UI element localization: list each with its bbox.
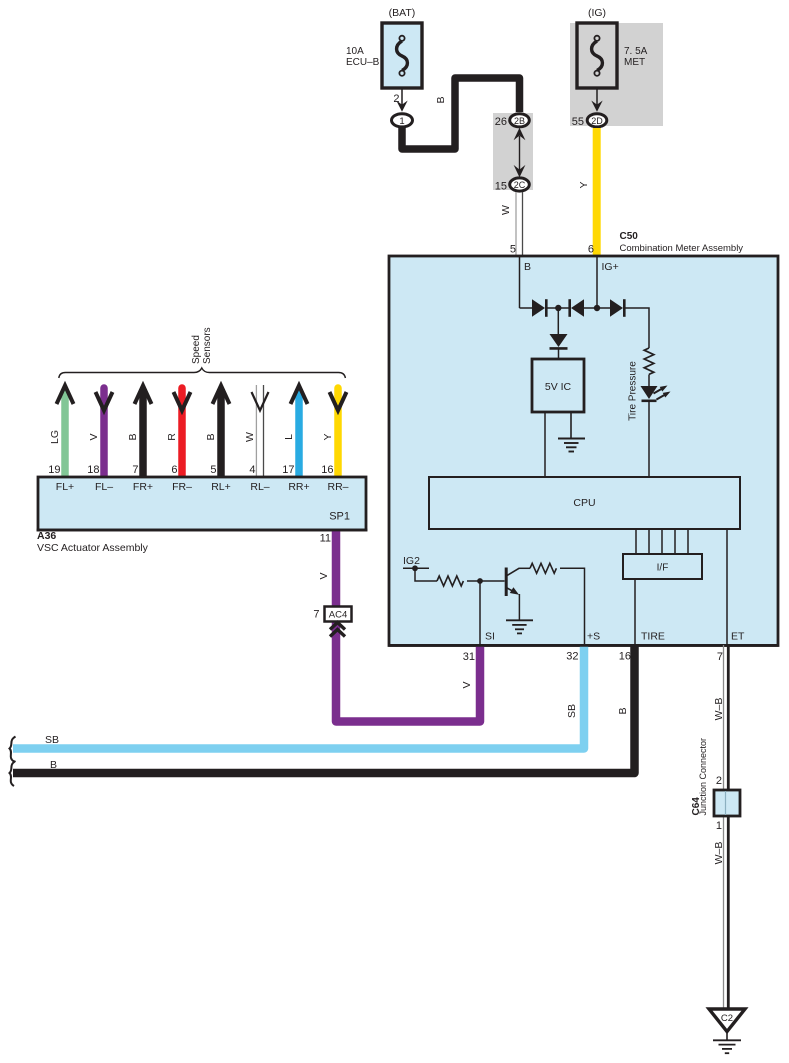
wire 5V IC to CPU (544, 412, 546, 477)
double chevron below AC4 (330, 623, 345, 630)
svg-text:18: 18 (87, 464, 99, 476)
svg-text:31: 31 (463, 651, 475, 663)
resistor R1 tire pressure (644, 348, 654, 374)
svg-text:ECU–B: ECU–B (346, 57, 380, 68)
svg-text:2C: 2C (514, 180, 526, 190)
svg-text:FL–: FL– (95, 481, 113, 493)
pin B line (519, 257, 521, 308)
svg-text:2: 2 (716, 775, 722, 787)
wire J1 down to D4 (557, 308, 559, 334)
pin IG+ line (596, 257, 598, 308)
svg-text:RR+: RR+ (288, 481, 309, 493)
svg-text:+S: +S (587, 631, 600, 643)
arrow down into connector 1 (396, 101, 407, 112)
ground G1 (558, 439, 585, 452)
svg-text:LG: LG (49, 430, 61, 444)
CPU box U2 (429, 477, 740, 529)
fuse F2 symbol (592, 36, 603, 76)
fuse F1 10A ECU-B box (382, 23, 422, 88)
svg-text:L: L (283, 434, 295, 440)
svg-text:SP1: SP1 (329, 511, 350, 523)
svg-text:2: 2 (393, 93, 399, 105)
wire collector (519, 567, 531, 569)
wire B thick black from connector 1 to 2B (402, 78, 520, 149)
svg-text:16: 16 (619, 651, 631, 663)
svg-text:C2: C2 (721, 1013, 733, 1024)
svg-text:Sensors: Sensors (202, 327, 213, 364)
svg-text:Tire Pressure: Tire Pressure (628, 361, 639, 421)
svg-text:Y: Y (322, 433, 334, 440)
svg-text:1: 1 (716, 820, 722, 832)
C50 box (389, 256, 778, 646)
svg-text:V: V (461, 681, 473, 688)
wire Y yellow from 2D to C50 pin 6 (593, 128, 601, 256)
svg-text:10A: 10A (346, 46, 364, 57)
svg-text:B: B (435, 96, 447, 103)
node J1 (555, 305, 561, 311)
svg-text:19: 19 (48, 464, 60, 476)
svg-text:5: 5 (510, 244, 516, 256)
A36 box (38, 477, 366, 530)
brace speed sensors (59, 368, 346, 378)
svg-text:55: 55 (572, 116, 584, 128)
fuse F2 7.5A MET box (577, 23, 617, 88)
wire B RL+ (217, 389, 225, 477)
svg-text:B: B (617, 707, 629, 714)
break symbol B (10, 761, 16, 786)
svg-text:B: B (50, 759, 57, 771)
svg-text:32: 32 (566, 651, 578, 663)
svg-text:IG+: IG+ (602, 261, 619, 273)
resistor R2 base (437, 576, 463, 586)
diode D4 down (550, 334, 568, 347)
A36 bottom border redraw (37, 529, 368, 532)
svg-text:(BAT): (BAT) (389, 7, 416, 19)
5V IC box U1 (532, 359, 584, 412)
diode row wires (520, 307, 533, 309)
transistor Q1 (505, 568, 508, 597)
svg-text:(IG): (IG) (588, 7, 606, 19)
svg-text:5V IC: 5V IC (545, 381, 572, 393)
svg-text:RL+: RL+ (211, 481, 231, 493)
connector band 2B-2C gray (493, 113, 533, 190)
wire 5V IC to ground (570, 412, 572, 438)
svg-text:Y: Y (578, 181, 590, 188)
svg-text:17: 17 (282, 464, 294, 476)
svg-text:AC4: AC4 (329, 610, 347, 621)
wire LG FL+ (61, 389, 69, 477)
ground symbol (726, 1032, 728, 1041)
ground C2 triangle (709, 1009, 745, 1032)
wire fuse lead (596, 88, 598, 106)
svg-text:V: V (88, 433, 100, 440)
node IG2 (412, 565, 418, 571)
svg-text:Combination Meter Assembly: Combination Meter Assembly (620, 243, 744, 254)
connector 2C oval (510, 178, 530, 191)
C50 bottom border redraw (389, 644, 778, 647)
connector 2D oval (587, 114, 607, 127)
svg-text:W–B: W–B (713, 698, 725, 721)
svg-text:1: 1 (399, 116, 404, 127)
svg-text:26: 26 (495, 116, 507, 128)
svg-text:MET: MET (624, 57, 645, 68)
wires CPU to I/F (636, 529, 688, 554)
svg-text:7: 7 (313, 609, 319, 621)
svg-text:W–B: W–B (713, 842, 725, 865)
svg-text:V: V (318, 572, 330, 579)
wire B black bottom (13, 645, 635, 773)
svg-text:FR+: FR+ (133, 481, 153, 493)
svg-text:A36: A36 (37, 530, 56, 542)
wire resistor to base (467, 580, 505, 582)
svg-text:4: 4 (249, 464, 255, 476)
diode D1 (532, 299, 545, 317)
svg-text:W: W (500, 205, 512, 215)
wire I/F to TIRE pin (634, 579, 636, 645)
node J2 (594, 305, 600, 311)
arrow down into connector 2D (591, 101, 602, 112)
svg-text:7. 5A: 7. 5A (624, 46, 648, 57)
svg-text:5: 5 (210, 464, 216, 476)
svg-text:ET: ET (731, 631, 745, 643)
wire W RL- double line (255, 385, 257, 477)
svg-text:W: W (244, 432, 256, 442)
svg-text:6: 6 (588, 244, 594, 256)
svg-text:SB: SB (45, 734, 59, 746)
wire V purple (336, 530, 480, 722)
I/F box U3 (623, 554, 702, 579)
svg-text:RR–: RR– (327, 481, 348, 493)
diode D3 (610, 299, 623, 317)
svg-text:TIRE: TIRE (641, 631, 665, 643)
svg-text:VSC Actuator Assembly: VSC Actuator Assembly (37, 542, 149, 554)
LED D5 tire pressure (641, 386, 658, 399)
wire fuse lead (401, 88, 403, 106)
wire IG2 to resistor (415, 568, 437, 581)
svg-text:6: 6 (171, 464, 177, 476)
wire L RR+ (295, 389, 303, 477)
wire W double line from 2C to C50 pin 5 (515, 192, 517, 256)
wire to tire pressure branch (626, 308, 650, 348)
wire emitter down (518, 594, 520, 620)
double arrow between 2B and 2C (519, 136, 521, 170)
svg-text:B: B (205, 433, 217, 440)
wire IG2 stub (403, 567, 429, 569)
diode D2 (571, 299, 584, 317)
wire B FR+ (139, 389, 147, 477)
svg-text:C50: C50 (620, 231, 639, 242)
svg-text:2D: 2D (591, 116, 603, 126)
connector C64 box (714, 790, 740, 816)
wire LED to CPU (648, 401, 650, 477)
svg-text:RL–: RL– (250, 481, 269, 493)
connector 2B oval (510, 114, 530, 127)
wire collector to +S (560, 568, 585, 645)
svg-text:15: 15 (495, 181, 507, 193)
svg-text:Speed: Speed (191, 335, 202, 364)
wire W-B double line upper (723, 645, 725, 1009)
connector 1 oval (392, 114, 413, 127)
svg-text:7: 7 (132, 464, 138, 476)
svg-text:FR–: FR– (172, 481, 192, 493)
wire V FL- (100, 388, 108, 477)
svg-text:CPU: CPU (573, 497, 595, 509)
svg-text:2B: 2B (514, 116, 525, 126)
svg-text:B: B (127, 433, 139, 440)
wire CPU to ET pin (726, 529, 728, 645)
resistor R3 collector (530, 563, 556, 573)
svg-text:Junction Connector: Junction Connector (698, 738, 708, 816)
connector AC4 (325, 607, 352, 622)
svg-text:16: 16 (321, 464, 333, 476)
svg-text:SB: SB (566, 704, 578, 718)
break symbol SB (10, 737, 16, 762)
wire R FR- (178, 388, 186, 477)
svg-text:FL+: FL+ (56, 481, 74, 493)
gray panel behind IG fuse (570, 23, 663, 126)
svg-text:B: B (524, 261, 531, 273)
svg-text:11: 11 (320, 533, 331, 545)
wire SI down (479, 581, 481, 645)
svg-text:R: R (166, 433, 178, 441)
svg-text:IG2: IG2 (403, 555, 420, 567)
fuse F1 symbol (397, 36, 408, 76)
svg-text:7: 7 (717, 651, 723, 663)
ground G2 (506, 620, 533, 633)
svg-text:I/F: I/F (657, 563, 669, 574)
wire SB sky blue (13, 645, 584, 749)
svg-text:SI: SI (485, 631, 495, 643)
wire Y RR- (334, 388, 342, 477)
node J3 SI junction (477, 578, 483, 584)
